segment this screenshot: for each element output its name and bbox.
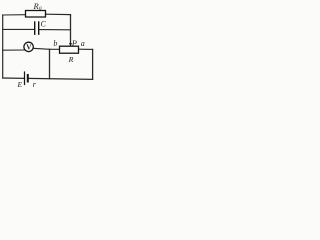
svg-text:b: b: [53, 39, 57, 48]
rheostat R box: [60, 46, 79, 53]
svg-text:R: R: [68, 55, 74, 64]
wire b stub: [50, 48, 60, 50]
svg-text:P: P: [71, 38, 77, 48]
battery E long plate: [24, 72, 26, 85]
wire bottom right: [28, 78, 93, 79]
wire voltmeter right: [33, 48, 49, 49]
wiper arrow head P: [69, 43, 72, 47]
svg-text:V: V: [26, 43, 32, 51]
capacitor C right plate: [38, 22, 40, 34]
capacitor C left plate: [34, 22, 36, 34]
wire bottom left: [3, 77, 25, 79]
svg-text:C: C: [41, 20, 47, 29]
resistor R0 box: [26, 11, 46, 18]
wire a stub: [79, 48, 93, 50]
wire top right stub: [46, 13, 71, 15]
wire middle vertical: [49, 49, 51, 78]
voltmeter V circle: [24, 42, 33, 51]
svg-text:E: E: [17, 80, 23, 89]
wire voltmeter left: [3, 49, 26, 51]
wire right rail: [92, 49, 94, 79]
wire left rail: [2, 15, 4, 78]
wire capacitor right: [39, 29, 71, 31]
wire top left stub: [3, 14, 26, 16]
svg-text:a: a: [81, 39, 85, 48]
wire capacitor left: [3, 28, 35, 30]
battery E short plate: [27, 75, 29, 82]
wire wiper vertical: [70, 15, 72, 43]
